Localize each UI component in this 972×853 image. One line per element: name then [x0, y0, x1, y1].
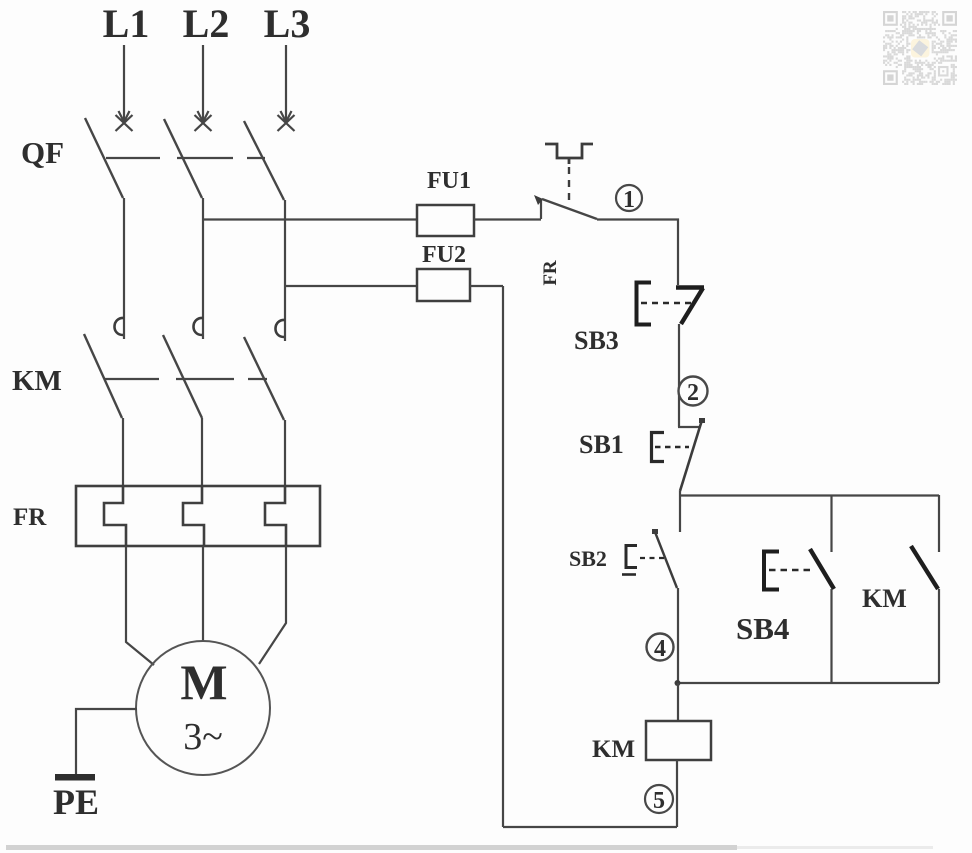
button SB1 dashed link: [655, 446, 689, 448]
wire SB2 to node 4: [677, 588, 679, 683]
svg-text:M: M: [180, 654, 227, 710]
wire SB3 to node 2: [678, 324, 680, 427]
FR trip dashed link: [568, 167, 570, 206]
wire to FU1 from pole2: [203, 218, 417, 220]
wire L3 feed with arrow: [278, 45, 295, 131]
wire top parallel branch: [679, 494, 939, 496]
button SB2 bracket: [626, 546, 637, 568]
FR NC contact blade: [542, 199, 597, 219]
contactor KM pole2 blade: [163, 335, 202, 418]
breaker QF linkage dashes: [106, 157, 265, 159]
wire L1 feed with arrow: [116, 45, 133, 131]
button SB4 bracket: [764, 552, 779, 590]
wire node4 to coil: [677, 683, 679, 721]
svg-text:4: 4: [654, 636, 666, 662]
node 5 circle: [645, 785, 673, 814]
wire control return vertical: [502, 286, 504, 827]
contactor KM pole3 fixed hook: [275, 320, 285, 337]
svg-text:KM: KM: [592, 736, 635, 763]
contactor KM pole1 blade: [84, 334, 122, 418]
breaker QF pole 2 blade: [164, 119, 202, 198]
bottom scan band: [6, 845, 737, 850]
wire FR contact to corner: [597, 220, 678, 286]
svg-text:FR: FR: [13, 504, 47, 531]
wire QF pole2 to KM contact: [202, 198, 204, 339]
wire KM pole3 to FR: [284, 420, 286, 486]
junction dot: [675, 680, 681, 686]
svg-text:KM: KM: [862, 584, 907, 613]
wire to FU2 from pole3: [285, 285, 417, 287]
wire motor to PE: [76, 709, 137, 774]
svg-text:FU2: FU2: [422, 242, 466, 268]
wire FR to motor W: [259, 546, 286, 664]
contactor KM pole1 fixed hook: [114, 318, 124, 335]
node 4 circle: [647, 634, 674, 663]
wire FR to motor U: [126, 546, 154, 665]
button SB4 upper wire: [830, 495, 832, 552]
button SB4 blade: [810, 549, 834, 589]
svg-text:L3: L3: [264, 1, 311, 46]
button SB4 lower wire: [830, 589, 832, 683]
button SB1 blade: [680, 420, 702, 491]
button SB1 jog wire: [678, 426, 699, 428]
button SB3 dashed link: [641, 302, 691, 305]
node 1 circle: [616, 185, 642, 213]
contactor KM linkage dashes: [105, 378, 267, 380]
wire QF pole1 to KM contact: [123, 198, 125, 339]
wire KM pole2 to FR: [201, 418, 203, 486]
wire control return bottom: [503, 826, 677, 828]
svg-text:SB4: SB4: [736, 611, 789, 646]
thermal relay FR box: [76, 486, 320, 546]
svg-text:FU1: FU1: [427, 168, 471, 194]
svg-text:L1: L1: [103, 1, 150, 46]
motor M circle: [136, 641, 270, 775]
button SB1 bracket: [652, 433, 665, 462]
svg-text:FR: FR: [540, 260, 561, 286]
svg-text:PE: PE: [53, 782, 99, 822]
contact KM aux blade: [911, 546, 938, 589]
wire coil to bottom: [676, 760, 678, 827]
contactor KM pole3 blade: [244, 337, 284, 420]
button SB3 bracket: [637, 283, 652, 325]
fuse FU1 body: [417, 205, 474, 236]
contact KM aux lower wire: [938, 589, 940, 683]
wire bottom parallel branch: [677, 682, 939, 684]
FR heater element 2: [183, 486, 204, 546]
FR NC contact riser and arrow: [540, 200, 542, 219]
button SB3 blade and tick: [676, 285, 704, 289]
wire KM pole1 to FR: [122, 418, 124, 486]
contactor KM pole2 fixed hook: [193, 318, 203, 335]
button SB2 dashed link: [640, 557, 664, 559]
coil KM box: [646, 721, 711, 760]
node 2 circle: [679, 377, 708, 407]
wire branch junction to SB2: [679, 491, 681, 532]
breaker QF pole 1 blade: [85, 118, 123, 198]
wire QF pole3 to KM contact: [284, 200, 286, 341]
svg-text:SB3: SB3: [574, 326, 619, 355]
svg-text:1: 1: [623, 187, 635, 213]
svg-text:QF: QF: [21, 135, 64, 170]
QR code watermark: [883, 11, 957, 85]
button SB2 blade: [655, 532, 677, 588]
svg-text:5: 5: [653, 788, 665, 814]
svg-text:SB1: SB1: [579, 430, 624, 459]
FR trip device symbol: [545, 144, 593, 164]
wire FU1 to FR contact: [474, 218, 541, 220]
breaker QF pole 3 blade: [244, 121, 284, 200]
FR heater element 1: [104, 486, 126, 546]
ground PE bar: [55, 774, 95, 781]
button SB4 dashed link: [769, 569, 813, 572]
svg-text:3~: 3~: [183, 716, 223, 758]
svg-text:KM: KM: [12, 365, 62, 397]
contact KM aux upper wire: [938, 495, 940, 552]
wire L2 feed with arrow: [195, 45, 212, 131]
wire FR to motor V: [202, 546, 204, 641]
svg-text:SB2: SB2: [569, 546, 607, 571]
FR heater element 3: [265, 486, 286, 546]
fuse FU2 body: [417, 269, 470, 301]
wire FU2 to control return: [470, 285, 503, 287]
svg-text:L2: L2: [183, 1, 230, 46]
svg-text:2: 2: [687, 380, 699, 406]
